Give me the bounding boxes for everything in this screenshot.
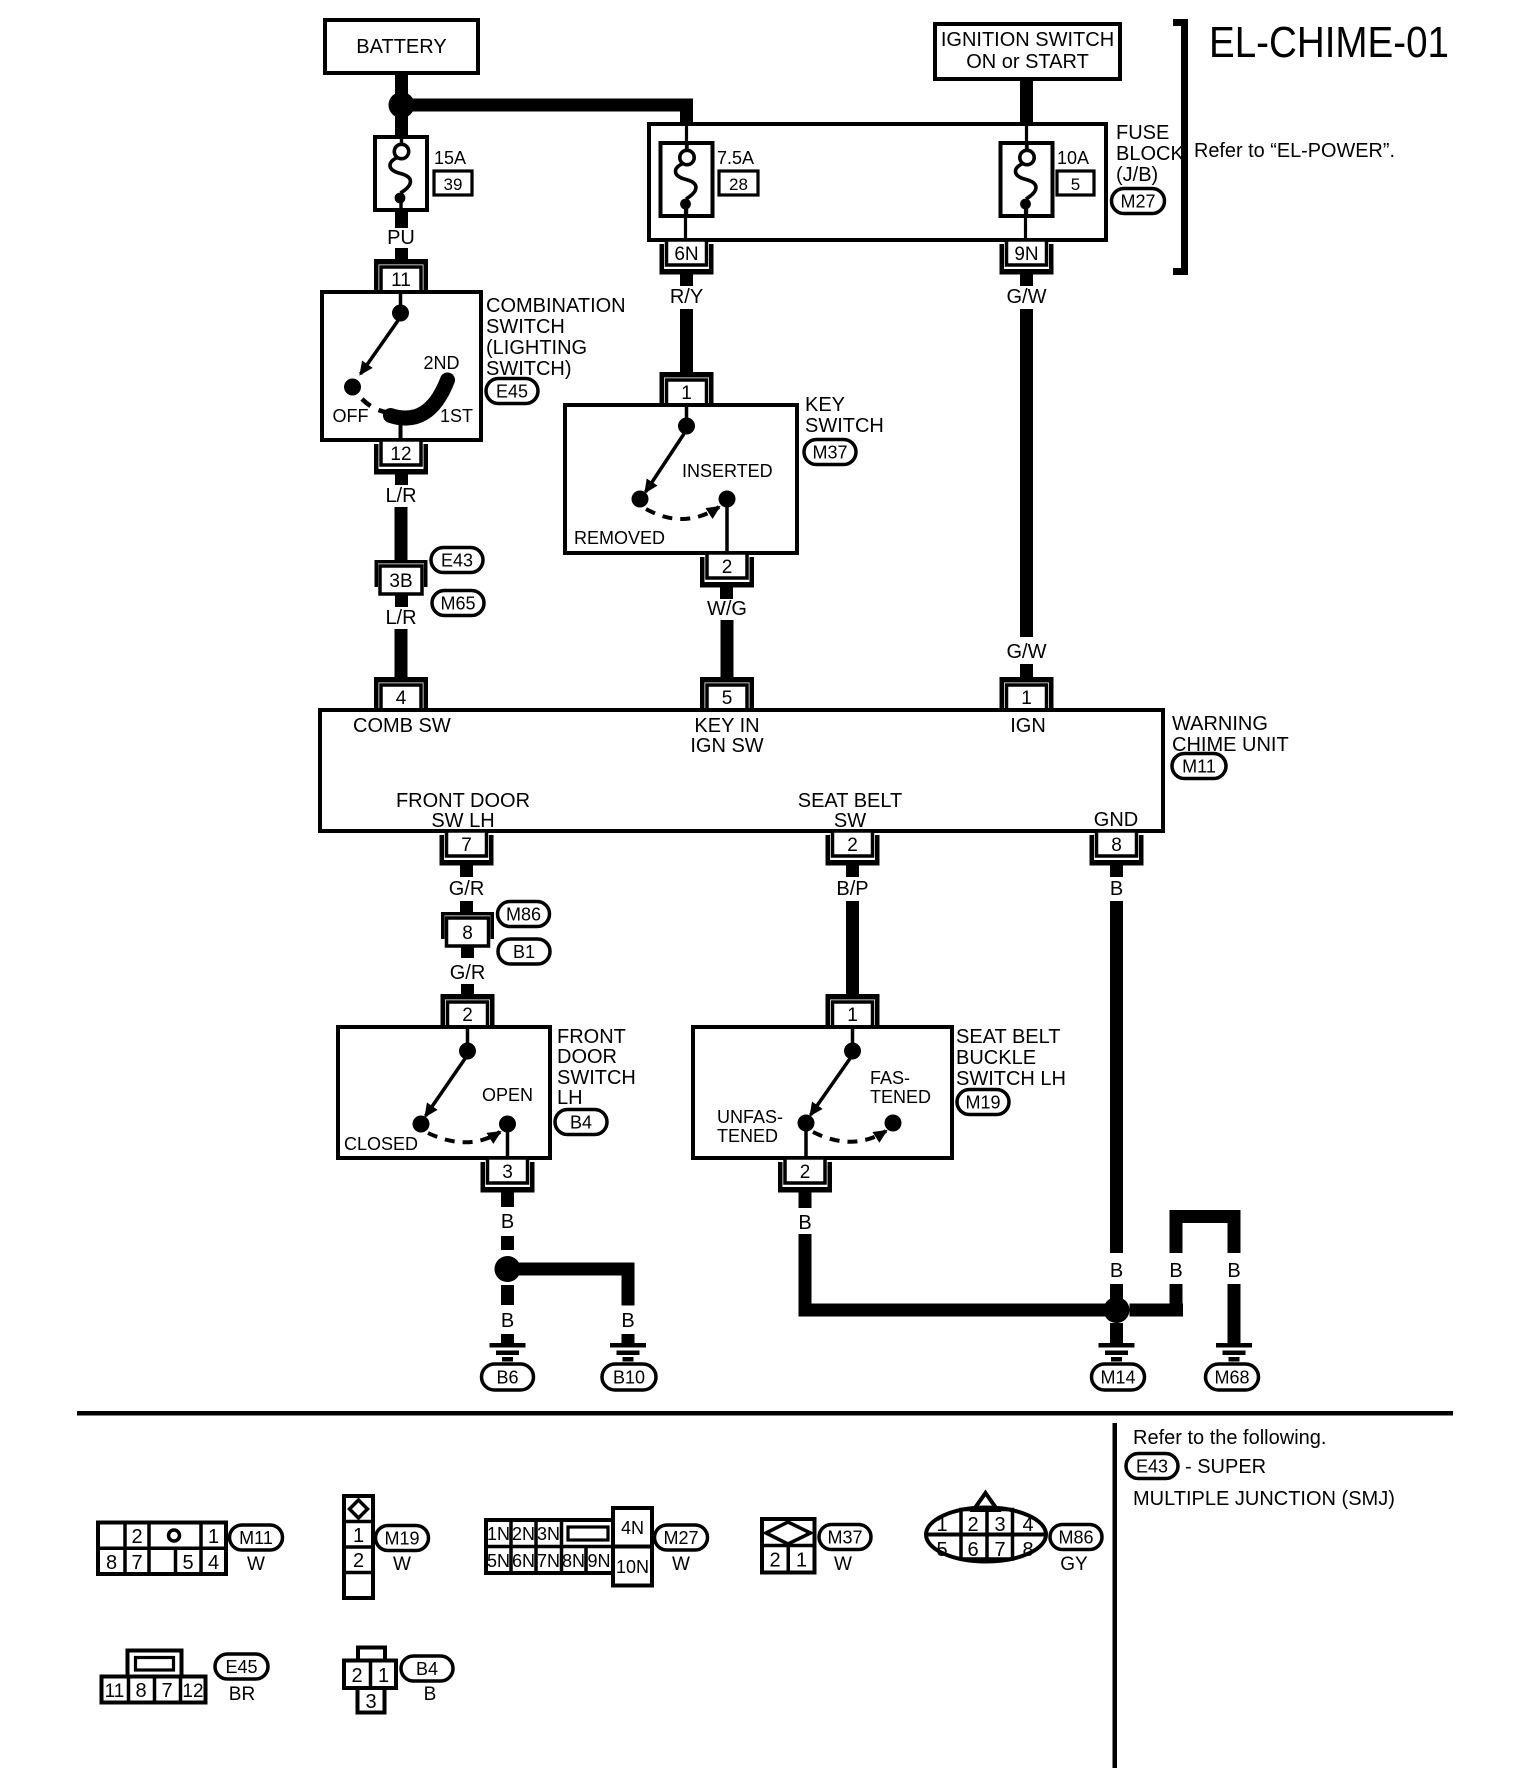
svg-text:SEAT BELT: SEAT BELT [956, 1026, 1060, 1048]
svg-text:2: 2 [800, 1162, 811, 1183]
svg-text:3B: 3B [389, 571, 412, 592]
svg-text:BR: BR [229, 1684, 255, 1705]
svg-text:7: 7 [161, 1680, 172, 1702]
svg-text:8: 8 [1111, 835, 1122, 856]
svg-text:1: 1 [796, 1550, 807, 1572]
svg-text:INSERTED: INSERTED [682, 461, 773, 481]
svg-text:12: 12 [182, 1681, 203, 1702]
svg-text:B: B [1110, 1260, 1123, 1282]
svg-text:B: B [1169, 1260, 1182, 1282]
svg-text:7.5A: 7.5A [717, 148, 754, 168]
svg-text:8: 8 [135, 1680, 146, 1702]
svg-text:TENED: TENED [870, 1087, 931, 1107]
svg-text:B: B [798, 1212, 811, 1234]
svg-text:1: 1 [208, 1526, 219, 1548]
svg-text:5: 5 [1071, 175, 1080, 194]
svg-text:G/R: G/R [449, 878, 485, 900]
svg-text:5N: 5N [487, 1551, 510, 1571]
svg-text:UNFAS-: UNFAS- [717, 1107, 783, 1127]
svg-text:M37: M37 [812, 443, 847, 463]
svg-text:SW LH: SW LH [431, 810, 494, 832]
svg-text:B1: B1 [513, 942, 535, 962]
svg-text:FRONT: FRONT [557, 1026, 626, 1048]
svg-text:2: 2 [351, 1665, 362, 1687]
svg-text:SEAT BELT: SEAT BELT [798, 790, 902, 812]
svg-text:4: 4 [396, 688, 407, 709]
svg-text:ON or START: ON or START [966, 51, 1089, 73]
svg-text:W: W [834, 1554, 852, 1575]
svg-text:7: 7 [461, 835, 472, 856]
svg-text:MULTIPLE JUNCTION (SMJ): MULTIPLE JUNCTION (SMJ) [1133, 1488, 1395, 1510]
svg-text:- SUPER: - SUPER [1185, 1456, 1266, 1478]
svg-text:B6: B6 [496, 1368, 518, 1388]
svg-text:4N: 4N [621, 1518, 644, 1538]
svg-text:M27: M27 [1120, 192, 1155, 212]
svg-text:SWITCH: SWITCH [805, 415, 884, 437]
svg-text:IGN: IGN [1010, 715, 1046, 737]
svg-text:SWITCH: SWITCH [486, 316, 565, 338]
svg-text:M86: M86 [506, 905, 541, 925]
svg-text:15A: 15A [434, 148, 466, 168]
svg-text:M14: M14 [1100, 1368, 1135, 1388]
svg-text:E45: E45 [225, 1657, 257, 1677]
svg-text:6: 6 [967, 1539, 978, 1561]
svg-text:EL-CHIME-01: EL-CHIME-01 [1209, 18, 1449, 67]
svg-text:B: B [1227, 1260, 1240, 1282]
svg-text:CLOSED: CLOSED [344, 1134, 418, 1154]
svg-text:KEY IN: KEY IN [694, 715, 759, 737]
svg-text:3: 3 [502, 1162, 513, 1183]
svg-text:E45: E45 [496, 382, 528, 402]
svg-text:2: 2 [131, 1526, 142, 1548]
svg-text:L/R: L/R [385, 485, 416, 507]
svg-text:2: 2 [462, 1005, 473, 1026]
svg-text:G/W: G/W [1007, 286, 1047, 308]
svg-text:6N: 6N [674, 244, 698, 265]
svg-text:W: W [672, 1554, 690, 1575]
svg-text:9N: 9N [587, 1551, 610, 1571]
svg-text:B: B [501, 1211, 514, 1233]
svg-text:WARNING: WARNING [1172, 713, 1268, 735]
svg-text:OPEN: OPEN [482, 1085, 533, 1105]
svg-text:10A: 10A [1057, 148, 1089, 168]
svg-text:W: W [247, 1554, 265, 1575]
svg-text:SWITCH: SWITCH [557, 1067, 636, 1089]
svg-text:FUSE: FUSE [1116, 122, 1169, 144]
svg-text:39: 39 [444, 175, 463, 194]
svg-text:SWITCH LH: SWITCH LH [956, 1068, 1066, 1090]
svg-text:R/Y: R/Y [670, 286, 703, 308]
svg-text:B10: B10 [613, 1368, 645, 1388]
svg-text:4: 4 [208, 1552, 219, 1574]
svg-text:1: 1 [1021, 688, 1032, 709]
svg-text:FAS-: FAS- [870, 1068, 910, 1088]
svg-text:GY: GY [1060, 1554, 1088, 1575]
svg-text:PU: PU [387, 227, 415, 249]
svg-text:OFF: OFF [333, 406, 369, 426]
svg-text:9N: 9N [1014, 244, 1038, 265]
svg-text:BATTERY: BATTERY [356, 36, 446, 58]
svg-text:8: 8 [1022, 1539, 1033, 1561]
svg-text:8N: 8N [562, 1551, 585, 1571]
svg-text:2N: 2N [512, 1524, 535, 1544]
svg-text:12: 12 [390, 444, 411, 465]
svg-text:M27: M27 [663, 1528, 698, 1548]
svg-text:TENED: TENED [717, 1126, 778, 1146]
svg-text:2: 2 [847, 835, 858, 856]
svg-text:DOOR: DOOR [557, 1046, 617, 1068]
svg-text:Refer to the following.: Refer to the following. [1133, 1427, 1326, 1449]
svg-text:B4: B4 [570, 1113, 592, 1133]
svg-text:M68: M68 [1214, 1368, 1249, 1388]
svg-text:SW: SW [834, 810, 866, 832]
svg-text:3N: 3N [537, 1524, 560, 1544]
svg-text:B: B [501, 1310, 514, 1332]
svg-text:M11: M11 [239, 1528, 273, 1548]
svg-text:1: 1 [353, 1525, 364, 1547]
svg-text:3: 3 [994, 1514, 1005, 1536]
svg-text:B: B [424, 1684, 437, 1705]
svg-text:M19: M19 [384, 1529, 419, 1549]
svg-text:7: 7 [131, 1552, 142, 1574]
svg-text:11: 11 [105, 1681, 125, 1702]
svg-text:M19: M19 [965, 1093, 1000, 1113]
svg-text:2: 2 [353, 1550, 364, 1572]
svg-text:B: B [1110, 878, 1123, 900]
svg-text:LH: LH [557, 1087, 583, 1109]
svg-text:8: 8 [106, 1552, 117, 1574]
svg-text:GND: GND [1094, 809, 1138, 831]
svg-text:2ND: 2ND [423, 353, 459, 373]
svg-text:COMBINATION: COMBINATION [486, 295, 626, 317]
svg-text:IGNITION SWITCH: IGNITION SWITCH [941, 29, 1114, 51]
svg-text:KEY: KEY [805, 394, 845, 416]
svg-text:5: 5 [936, 1539, 947, 1561]
svg-text:L/R: L/R [385, 607, 416, 629]
svg-text:W/G: W/G [707, 598, 747, 620]
svg-text:COMB SW: COMB SW [353, 715, 451, 737]
svg-text:1: 1 [936, 1514, 947, 1536]
svg-text:1N: 1N [487, 1524, 510, 1544]
svg-text:4: 4 [1022, 1514, 1033, 1536]
svg-text:7: 7 [994, 1539, 1005, 1561]
svg-text:5: 5 [182, 1552, 193, 1574]
svg-text:2: 2 [769, 1550, 780, 1572]
svg-text:M65: M65 [440, 594, 475, 614]
svg-text:M37: M37 [827, 1528, 862, 1548]
svg-text:8: 8 [462, 923, 473, 944]
svg-text:5: 5 [722, 688, 733, 709]
svg-text:Refer to “EL-POWER”.: Refer to “EL-POWER”. [1194, 140, 1395, 162]
svg-text:7N: 7N [537, 1551, 560, 1571]
svg-text:B: B [621, 1310, 634, 1332]
svg-text:2: 2 [722, 557, 733, 578]
svg-text:(LIGHTING: (LIGHTING [486, 337, 587, 359]
svg-text:BUCKLE: BUCKLE [956, 1047, 1036, 1069]
svg-text:M11: M11 [1182, 757, 1216, 777]
svg-text:1: 1 [681, 383, 692, 404]
svg-text:10N: 10N [616, 1557, 649, 1577]
svg-text:B4: B4 [416, 1659, 438, 1679]
svg-text:M86: M86 [1058, 1528, 1093, 1548]
svg-text:SWITCH): SWITCH) [486, 358, 572, 380]
svg-text:IGN SW: IGN SW [690, 735, 763, 757]
svg-text:G/W: G/W [1007, 641, 1047, 663]
svg-text:W: W [393, 1554, 411, 1575]
svg-text:G/R: G/R [450, 962, 486, 984]
svg-text:1: 1 [847, 1005, 858, 1026]
svg-text:FRONT DOOR: FRONT DOOR [396, 790, 530, 812]
svg-text:2: 2 [967, 1514, 978, 1536]
svg-text:REMOVED: REMOVED [574, 528, 665, 548]
svg-text:1: 1 [378, 1665, 389, 1687]
svg-text:B/P: B/P [836, 878, 868, 900]
svg-text:BLOCK: BLOCK [1116, 143, 1184, 165]
svg-text:(J/B): (J/B) [1116, 164, 1158, 186]
svg-text:28: 28 [729, 175, 748, 194]
svg-text:11: 11 [391, 270, 411, 291]
svg-text:6N: 6N [512, 1551, 535, 1571]
svg-text:1ST: 1ST [440, 406, 473, 426]
svg-text:E43: E43 [441, 551, 473, 571]
svg-text:3: 3 [365, 1691, 376, 1713]
svg-text:E43: E43 [1136, 1457, 1168, 1477]
